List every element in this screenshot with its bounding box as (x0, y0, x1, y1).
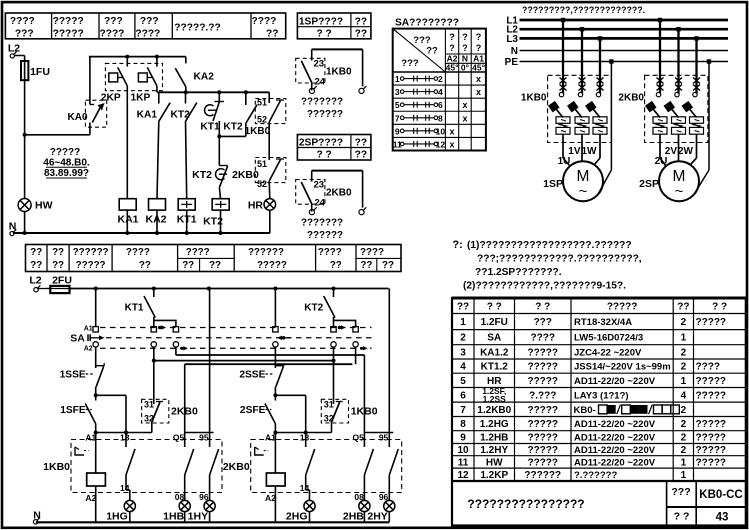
svg-text:?????: ????? (50, 147, 81, 158)
svg-text:14: 14 (120, 483, 130, 493)
svg-text:KB0-CC: KB0-CC (699, 489, 742, 501)
svg-text:A1: A1 (84, 326, 93, 333)
svg-text:2SFE: 2SFE (240, 405, 266, 416)
svg-text:KT1: KT1 (125, 303, 144, 314)
svg-text:???: ??? (534, 317, 552, 328)
svg-text:1KP: 1KP (130, 92, 150, 103)
svg-text:L2: L2 (8, 43, 20, 55)
svg-text:HW: HW (35, 200, 53, 212)
svg-text:24: 24 (315, 76, 326, 87)
svg-text:???: ??? (140, 16, 159, 27)
svg-text:? ?: ? ? (712, 302, 727, 313)
svg-text:1.2HY: 1.2HY (480, 445, 508, 456)
svg-text:1.2HG: 1.2HG (480, 419, 509, 430)
svg-text:JZC4-22 ~220V: JZC4-22 ~220V (574, 347, 642, 358)
svg-text:2: 2 (681, 419, 687, 430)
svg-text:1KB0: 1KB0 (245, 126, 271, 137)
svg-text:???: ??? (671, 486, 690, 498)
svg-text:SA: SA (487, 333, 501, 344)
svg-text:A2: A2 (84, 346, 93, 353)
svg-text:?: ? (462, 32, 468, 42)
svg-text:?????: ????? (696, 457, 727, 468)
svg-text:AD11-22/20 ~220V: AD11-22/20 ~220V (574, 445, 656, 456)
svg-text:????: ???? (360, 247, 384, 258)
svg-text:1SFE: 1SFE (60, 405, 86, 416)
svg-text:L3: L3 (506, 34, 518, 45)
svg-text:?????: ????? (527, 376, 558, 387)
svg-text:?????: ????? (527, 405, 558, 416)
svg-text:? ?: ? ? (674, 511, 690, 523)
svg-text:51: 51 (257, 159, 267, 169)
svg-text:?????: ????? (527, 457, 558, 468)
svg-text:AD11-22/20 ~220V: AD11-22/20 ~220V (574, 457, 656, 468)
svg-text:?????: ????? (696, 433, 727, 444)
svg-text:~: ~ (675, 183, 684, 200)
svg-text:???;????????????.??????????,: ???;????????????.??????????, (477, 254, 642, 265)
svg-text:2SP????: 2SP???? (299, 138, 343, 149)
svg-text:31: 31 (144, 400, 154, 410)
svg-text:SA????????: SA???????? (395, 18, 459, 29)
svg-text:??????: ?????? (307, 109, 343, 120)
svg-text:????: ???? (696, 362, 720, 373)
svg-text:1: 1 (681, 376, 687, 387)
svg-text:N: N (511, 46, 518, 57)
svg-text:????: ???? (135, 28, 160, 39)
svg-text:2HG: 2HG (286, 511, 308, 523)
svg-text:9: 9 (460, 433, 466, 444)
svg-text:LAY3 (1?1?): LAY3 (1?1?) (574, 390, 629, 401)
svg-text:45°: 45° (472, 63, 485, 73)
svg-text:1: 1 (681, 470, 687, 481)
svg-text:1: 1 (681, 333, 687, 344)
svg-text:1KB0: 1KB0 (43, 461, 70, 473)
svg-text:7: 7 (460, 405, 466, 416)
svg-text:9: 9 (395, 126, 400, 136)
svg-text:2U: 2U (655, 156, 668, 167)
svg-text:1SP: 1SP (543, 178, 563, 190)
svg-text:95: 95 (379, 433, 389, 443)
svg-text:11: 11 (458, 457, 469, 468)
svg-text:x: x (476, 74, 481, 84)
svg-text:?????: ????? (696, 445, 727, 456)
svg-text:??: ?? (52, 247, 64, 258)
svg-text:????: ???? (318, 247, 342, 258)
svg-text:???: ??? (104, 16, 123, 27)
svg-text:? ?: ? ? (317, 29, 332, 40)
svg-text:?????: ????? (527, 362, 558, 373)
svg-text:1U: 1U (558, 156, 571, 167)
svg-text:?????.??: ?????.?? (174, 23, 220, 34)
svg-text:1HY: 1HY (188, 511, 208, 523)
svg-text:? ?: ? ? (487, 302, 502, 313)
svg-text:??: ?? (457, 302, 469, 313)
svg-text:KT2: KT2 (223, 122, 243, 133)
svg-text:?????: ????? (696, 390, 727, 401)
svg-text:4: 4 (460, 362, 466, 373)
svg-text:2SP: 2SP (639, 178, 659, 190)
svg-text:2FU: 2FU (52, 275, 72, 287)
svg-text:KA2: KA2 (145, 214, 166, 226)
svg-text:12: 12 (457, 470, 469, 481)
svg-text:?????????,?????????????.: ?????????,?????????????. (522, 5, 645, 15)
svg-text:AD11-22/20 ~220V: AD11-22/20 ~220V (574, 376, 656, 387)
svg-text:???: ??? (401, 58, 419, 69)
svg-text:?????: ????? (527, 347, 558, 358)
svg-text:A2: A2 (265, 493, 276, 503)
svg-text:???????: ??????? (301, 218, 343, 229)
svg-text:1FU: 1FU (30, 66, 50, 78)
svg-text:1.2FU: 1.2FU (481, 317, 508, 328)
svg-text:23: 23 (314, 58, 325, 69)
svg-text:??: ?? (182, 260, 194, 271)
svg-text:1HB: 1HB (163, 511, 184, 523)
svg-text:x: x (450, 126, 455, 136)
svg-text:L2: L2 (29, 275, 41, 287)
svg-text:3: 3 (395, 87, 400, 97)
svg-text:??: ?? (426, 46, 438, 57)
svg-text:AD11-22/20 ~220V: AD11-22/20 ~220V (574, 433, 656, 444)
svg-text:KA1.2: KA1.2 (480, 347, 509, 358)
svg-text:?: ? (449, 43, 455, 53)
svg-text:??: ?? (330, 260, 342, 271)
svg-text:2SSE: 2SSE (239, 370, 265, 381)
svg-text:? ?: ? ? (317, 150, 332, 161)
svg-text:1: 1 (395, 74, 400, 84)
svg-text:??: ?? (52, 260, 64, 271)
svg-text:8: 8 (460, 419, 466, 430)
svg-text:?????: ????? (607, 302, 638, 313)
svg-text:1: 1 (460, 317, 466, 328)
svg-text:????: ???? (100, 28, 125, 39)
svg-text:0°: 0° (461, 63, 470, 73)
svg-text:????: ???? (186, 247, 210, 258)
svg-text:31: 31 (324, 400, 334, 410)
svg-text:KB0-: KB0- (574, 405, 596, 416)
svg-text:PE: PE (505, 57, 519, 68)
svg-text:KT2: KT2 (171, 110, 191, 121)
svg-text:13: 13 (300, 433, 310, 443)
svg-text:?.??????: ?.?????? (574, 470, 617, 481)
svg-text:13: 13 (120, 433, 130, 443)
svg-text:????????????????: ???????????????? (467, 497, 584, 511)
svg-text:2W: 2W (678, 146, 694, 157)
svg-text:KA2: KA2 (194, 72, 215, 83)
svg-text:RT18-32X/4A: RT18-32X/4A (574, 317, 632, 328)
svg-text:??: ?? (355, 17, 367, 28)
svg-text:?: ? (449, 32, 455, 42)
svg-text:1.2HB: 1.2HB (480, 433, 508, 444)
svg-text:5: 5 (395, 100, 400, 110)
svg-text:2: 2 (681, 433, 687, 444)
svg-text:??: ?? (30, 247, 42, 258)
svg-text:2HB: 2HB (343, 511, 364, 523)
svg-text:24: 24 (315, 198, 326, 209)
svg-text:2KB0: 2KB0 (618, 93, 644, 104)
svg-text:2: 2 (460, 333, 466, 344)
svg-text:??????: ?????? (307, 230, 343, 241)
svg-text:??: ?? (139, 260, 151, 271)
svg-text:7: 7 (395, 113, 400, 123)
svg-text:(2)????????????,???????9-15?.: (2)????????????,???????9-15?. (463, 281, 626, 292)
svg-text:???: ??? (15, 28, 34, 39)
svg-text:?????: ????? (53, 28, 84, 39)
svg-text:JSS14/~220V 1s~99m: JSS14/~220V 1s~99m (574, 362, 671, 373)
svg-text:?????: ????? (527, 419, 558, 430)
svg-text:??: ?? (30, 260, 42, 271)
svg-text:4: 4 (681, 390, 687, 401)
svg-text:A2: A2 (85, 493, 96, 503)
svg-text:??: ?? (382, 260, 394, 271)
svg-text:KT2: KT2 (192, 169, 212, 181)
svg-text:?????: ????? (257, 260, 287, 271)
svg-text:1.2SS: 1.2SS (483, 394, 506, 404)
svg-text:??????: ?????? (248, 247, 284, 258)
svg-text:????: ???? (126, 247, 150, 258)
svg-text:KT1.2: KT1.2 (481, 362, 509, 373)
svg-text:43: 43 (716, 512, 729, 524)
svg-text:???????: ??????? (301, 96, 343, 107)
svg-text:2KB0: 2KB0 (326, 188, 352, 199)
svg-text:?????: ????? (696, 419, 727, 430)
svg-text:??????: ?????? (524, 470, 561, 481)
svg-text:?????: ????? (696, 376, 727, 387)
svg-text:????: ???? (531, 333, 555, 344)
svg-text:?: ? (476, 32, 482, 42)
svg-text:2HY: 2HY (367, 511, 387, 523)
svg-text:? ?: ? ? (535, 302, 550, 313)
svg-text:83.89.99?: 83.89.99? (44, 168, 89, 179)
svg-text:1W: 1W (582, 146, 598, 157)
svg-text:?????: ????? (696, 317, 727, 328)
svg-text:SA: SA (70, 333, 85, 345)
svg-text:4: 4 (438, 87, 443, 97)
svg-text:HR: HR (248, 200, 264, 212)
svg-text:2KP: 2KP (101, 92, 121, 103)
svg-text:Q5: Q5 (353, 433, 365, 443)
svg-text:x: x (462, 100, 467, 110)
svg-text:3: 3 (460, 347, 466, 358)
svg-text:1.2KP: 1.2KP (480, 470, 508, 481)
svg-text:HW: HW (486, 457, 503, 468)
svg-text:23: 23 (314, 180, 325, 191)
svg-text:2: 2 (681, 317, 687, 328)
svg-text:?????: ????? (76, 260, 106, 271)
svg-text:?: ? (476, 43, 482, 53)
svg-text:KT2: KT2 (304, 303, 323, 314)
svg-text:2: 2 (438, 74, 443, 84)
svg-text:?.???: ?.??? (529, 390, 556, 401)
svg-text:2: 2 (681, 445, 687, 456)
svg-text:??: ?? (355, 150, 367, 161)
svg-text:KT1: KT1 (200, 122, 220, 133)
svg-text:??: ?? (355, 138, 367, 149)
svg-text:~: ~ (579, 183, 588, 200)
svg-text:????: ???? (10, 16, 35, 27)
svg-text:KA1: KA1 (137, 110, 158, 121)
svg-text:??1.2SP???????.: ??1.2SP???????. (475, 267, 562, 278)
svg-text:45°: 45° (446, 63, 459, 73)
svg-text:2KB0: 2KB0 (223, 461, 250, 473)
svg-text:51: 51 (257, 98, 267, 108)
svg-text:2: 2 (681, 405, 687, 416)
svg-text:8: 8 (438, 113, 443, 123)
svg-text:52: 52 (257, 179, 267, 189)
svg-text:????: ???? (252, 16, 277, 27)
svg-text:6: 6 (460, 390, 466, 401)
svg-text:?:: ?: (452, 239, 462, 251)
svg-text:1KB0: 1KB0 (326, 66, 352, 77)
svg-text:2V: 2V (665, 146, 678, 157)
svg-text:52: 52 (257, 115, 267, 125)
svg-text:x: x (462, 113, 467, 123)
svg-text:??: ?? (209, 260, 221, 271)
svg-text:A1: A1 (265, 433, 276, 443)
svg-text:??: ?? (355, 29, 367, 40)
svg-text:(1)??????????????????.??????: (1)??????????????????.?????? (467, 240, 632, 251)
svg-text:?????: ????? (527, 433, 558, 444)
svg-text:A1: A1 (85, 433, 96, 443)
svg-text:AD11-22/20 ~220V: AD11-22/20 ~220V (574, 419, 656, 430)
svg-text:1SP????: 1SP???? (299, 17, 343, 28)
svg-text:6: 6 (438, 100, 443, 110)
svg-text:??: ?? (677, 302, 689, 313)
svg-text:???: ??? (413, 35, 431, 46)
svg-text:??: ?? (266, 28, 278, 39)
svg-text:x: x (450, 139, 455, 149)
svg-text:1.2KB0: 1.2KB0 (477, 405, 511, 416)
svg-text:LW5-16D0724/3: LW5-16D0724/3 (574, 333, 643, 344)
svg-text:95: 95 (199, 433, 209, 443)
svg-text:2: 2 (681, 362, 687, 373)
svg-text:2: 2 (681, 347, 687, 358)
svg-text:1: 1 (681, 457, 687, 468)
svg-text:x: x (476, 87, 481, 97)
svg-text:?????: ????? (527, 445, 558, 456)
svg-text:14: 14 (300, 483, 310, 493)
svg-text:5: 5 (460, 376, 466, 387)
svg-text:??????: ?????? (73, 247, 109, 258)
svg-text:1HG: 1HG (106, 511, 128, 523)
svg-text:10: 10 (457, 445, 469, 456)
svg-text:Q5: Q5 (173, 433, 185, 443)
svg-text:1SSE: 1SSE (60, 370, 86, 381)
svg-text:KA0: KA0 (68, 112, 88, 123)
svg-text:?: ? (462, 43, 468, 53)
svg-text:??: ?? (360, 260, 372, 271)
svg-text:1V: 1V (568, 146, 581, 157)
svg-text:?????: ????? (53, 16, 84, 27)
svg-text:1KB0: 1KB0 (521, 93, 547, 104)
